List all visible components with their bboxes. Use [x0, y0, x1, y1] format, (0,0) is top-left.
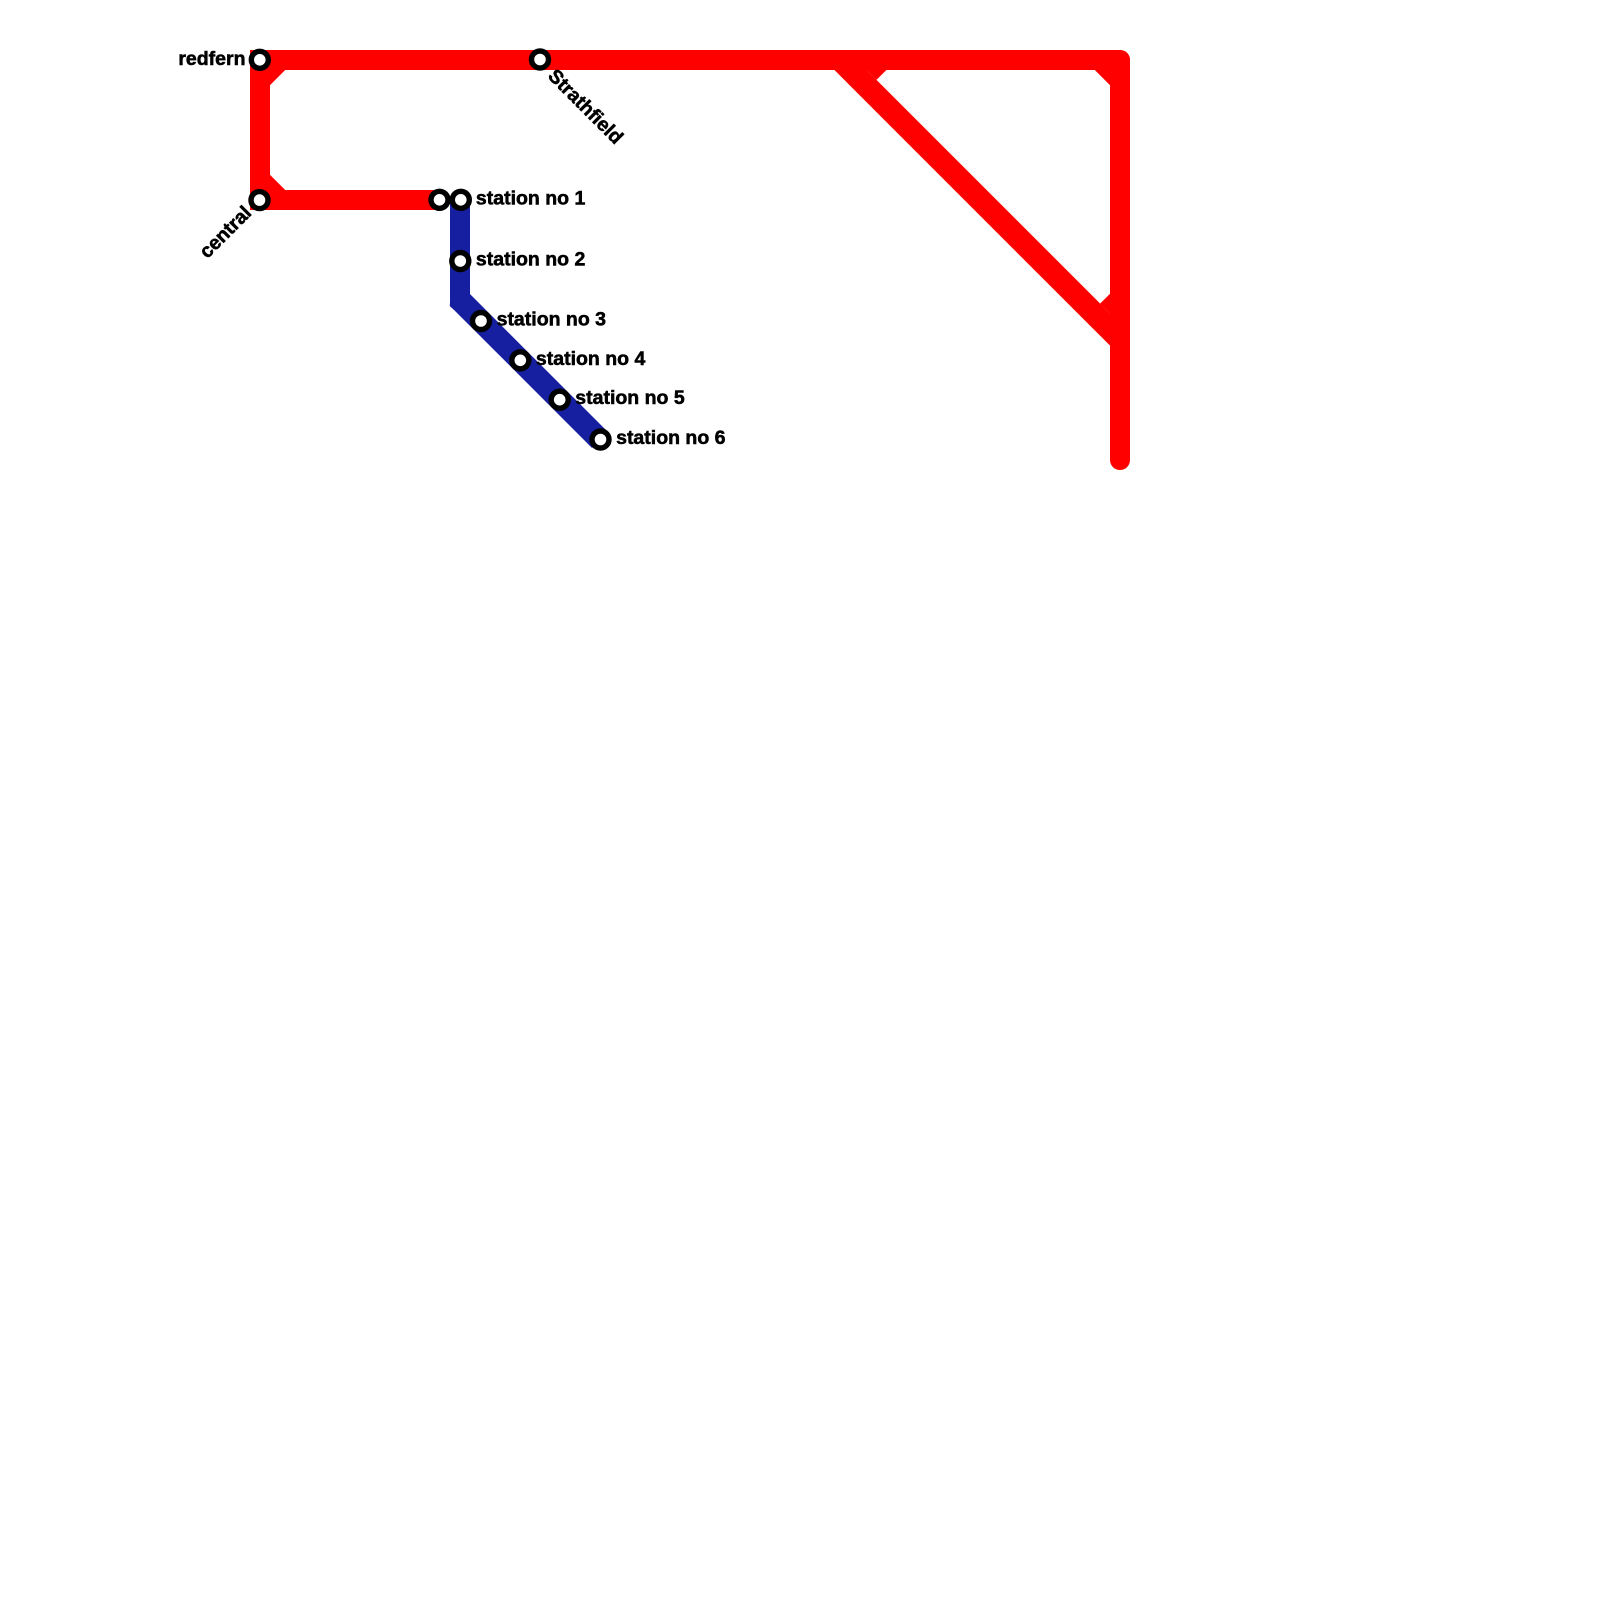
svg-text:station no 2: station no 2 — [476, 249, 586, 271]
svg-text:station no 5: station no 5 — [575, 387, 685, 409]
svg-text:station no 1: station no 1 — [476, 188, 586, 210]
svg-text:station no 4: station no 4 — [536, 348, 646, 370]
svg-text:station no 3: station no 3 — [497, 309, 607, 331]
svg-text:station no 6: station no 6 — [616, 427, 726, 449]
svg-text:redfern: redfern — [178, 48, 245, 70]
